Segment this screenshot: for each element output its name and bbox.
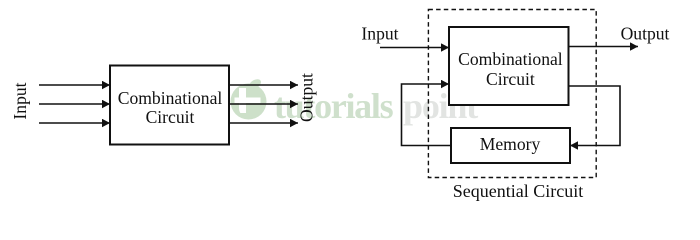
svg-text:tutorials: tutorials	[274, 86, 394, 126]
box combinational circuit (left)	[110, 66, 229, 145]
svg-text:Input: Input	[361, 23, 398, 43]
wire feedback left: memory to combinational	[402, 84, 452, 146]
wire output arrow (right)	[569, 46, 639, 48]
wire input arrow 3 (left)	[39, 122, 110, 124]
wire input arrow 2 (left)	[39, 103, 110, 105]
box memory	[451, 128, 570, 163]
svg-text:Sequential Circuit: Sequential Circuit	[453, 181, 583, 201]
svg-text:Output: Output	[297, 73, 317, 122]
wire input arrow (right)	[380, 47, 449, 49]
wire output arrow 2 (left)	[229, 103, 298, 105]
dashed boundary sequential circuit	[428, 10, 596, 178]
wire feedback right: combinational to memory	[569, 86, 621, 146]
wire output arrow 1 (left)	[229, 84, 298, 86]
svg-text:Circuit: Circuit	[146, 107, 195, 127]
svg-text:Input: Input	[10, 82, 30, 119]
svg-text:Circuit: Circuit	[486, 69, 535, 89]
svg-text:Memory: Memory	[480, 134, 541, 154]
svg-text:Output: Output	[621, 23, 670, 43]
wire output arrow 3 (left)	[229, 122, 298, 124]
svg-text:Combinational: Combinational	[458, 49, 563, 69]
svg-text:Combinational: Combinational	[118, 88, 223, 108]
box combinational circuit (right)	[449, 27, 569, 105]
watermark logo circle	[231, 77, 267, 119]
wire input arrow 1 (left)	[39, 84, 110, 86]
